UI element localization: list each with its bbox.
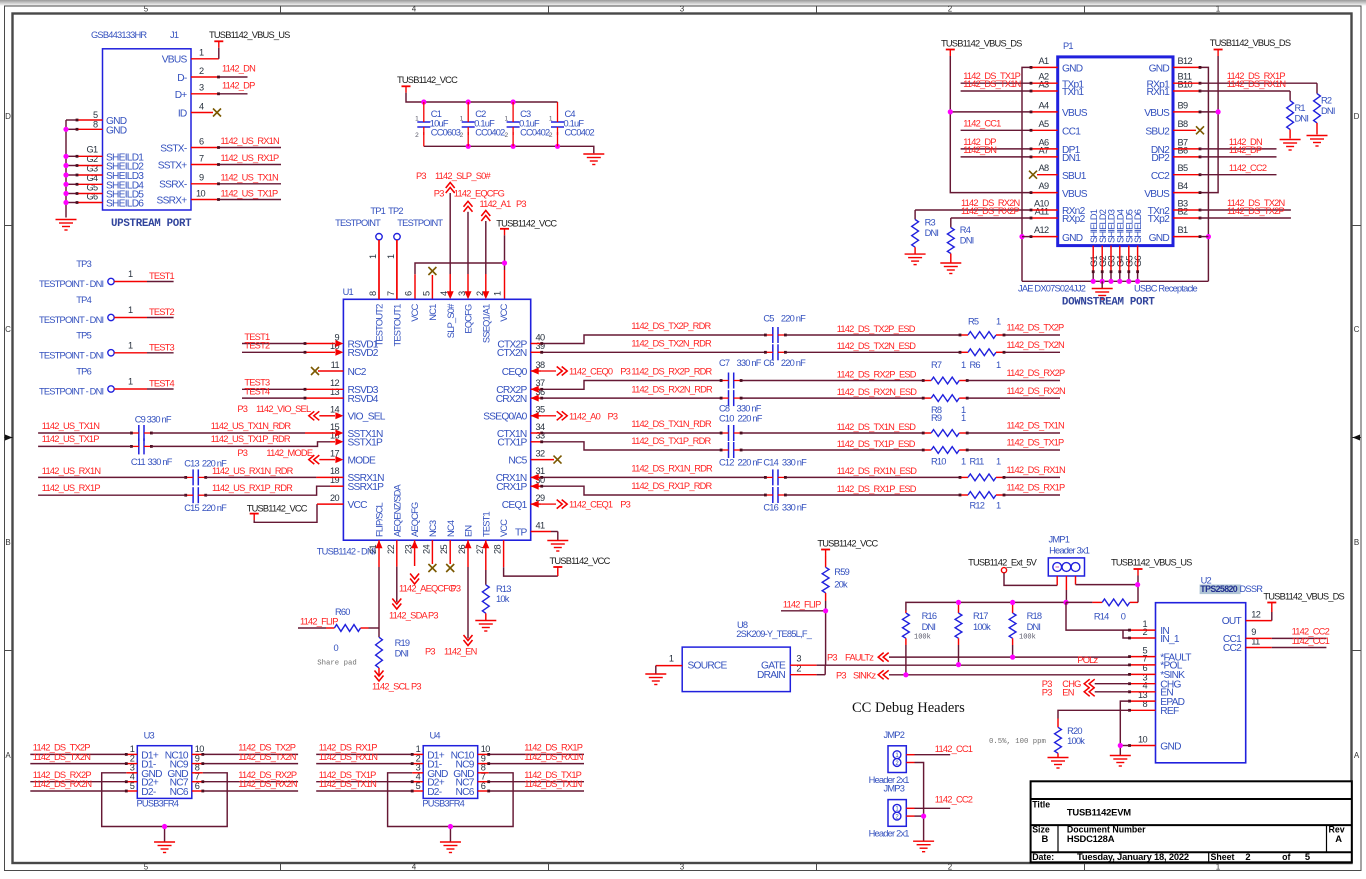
resistor R9 xyxy=(922,413,969,436)
svg-text:G2: G2 xyxy=(86,154,98,164)
power TUSB1142_VBUS_US at U2 xyxy=(1111,558,1192,603)
wire 1142_DN xyxy=(191,64,255,79)
wire 1142_US_RX1N row xyxy=(38,466,343,478)
svg-text:1142_DS_TX1P: 1142_DS_TX1P xyxy=(1007,438,1064,448)
svg-text:CC Debug Headers: CC Debug Headers xyxy=(852,700,965,716)
svg-text:USBC Receptacle: USBC Receptacle xyxy=(1134,283,1198,293)
svg-text:Date:: Date: xyxy=(1032,852,1054,862)
svg-text:JMP2: JMP2 xyxy=(884,730,905,740)
svg-text:B2: B2 xyxy=(1178,207,1189,217)
junction B1 GND xyxy=(1206,234,1211,239)
junction VBUS right xyxy=(1216,109,1221,114)
resistor R5 xyxy=(959,317,1006,339)
svg-text:1142_US_TX1P_RDR: 1142_US_TX1P_RDR xyxy=(211,434,291,444)
svg-text:1142_DN: 1142_DN xyxy=(963,145,996,155)
P1 B8 SBU2 no-connect xyxy=(1173,126,1204,134)
svg-text:1: 1 xyxy=(199,48,204,58)
svg-text:DNI: DNI xyxy=(395,649,409,659)
svg-text:32: 32 xyxy=(536,448,546,458)
svg-text:1: 1 xyxy=(961,413,966,423)
svg-text:TUSB1142_VBUS_DS: TUSB1142_VBUS_DS xyxy=(1210,38,1291,48)
svg-text:1142_DS_RX1P_ESD: 1142_DS_RX1P_ESD xyxy=(837,484,917,494)
wire 1142_DS_RX2P to A11 xyxy=(951,206,1058,219)
J1 pin numbers xyxy=(86,48,205,202)
svg-text:24: 24 xyxy=(421,545,431,555)
wire 1142_DP to A6 xyxy=(961,137,1058,150)
wire U4 ground loop xyxy=(388,773,513,842)
svg-text:OUT: OUT xyxy=(1222,616,1242,627)
power TUSB1142_VCC at U1 pin1 xyxy=(496,218,557,263)
P1 shield pin numbers xyxy=(1089,255,1143,267)
svg-text:TXn1: TXn1 xyxy=(1062,87,1084,98)
svg-text:C5: C5 xyxy=(763,314,774,324)
svg-text:B9: B9 xyxy=(1178,100,1189,110)
svg-text:5: 5 xyxy=(1305,851,1310,862)
U1 bottom pin numbers xyxy=(368,545,503,555)
svg-text:TEST1: TEST1 xyxy=(149,271,175,281)
wire U1 pin28 VCC xyxy=(504,540,558,576)
svg-text:1142_CEQ1: 1142_CEQ1 xyxy=(569,500,613,510)
svg-text:GND: GND xyxy=(1062,64,1083,75)
svg-text:41: 41 xyxy=(536,520,546,530)
testpoint TP6 xyxy=(39,367,147,397)
capacitor C3 xyxy=(504,102,550,146)
svg-text:1142_FLIP: 1142_FLIP xyxy=(783,599,821,609)
P1 right pin names xyxy=(1144,64,1170,244)
svg-text:2: 2 xyxy=(948,5,953,14)
svg-text:G1: G1 xyxy=(86,145,98,155)
svg-text:PUSB3FR4: PUSB3FR4 xyxy=(422,799,464,809)
svg-text:1142_DS_TX2P: 1142_DS_TX2P xyxy=(1227,206,1284,216)
svg-text:TESTPOINT - DNI: TESTPOINT - DNI xyxy=(39,387,103,397)
junction R18 bus top xyxy=(1010,600,1015,605)
wire U2 EPAD to GND xyxy=(1120,701,1129,755)
ground at R2 xyxy=(1307,136,1328,147)
svg-text:P3: P3 xyxy=(827,653,837,663)
resistor R11 xyxy=(959,457,1006,481)
U3 pin numbers xyxy=(130,744,205,791)
svg-text:DN1: DN1 xyxy=(1062,153,1081,164)
resistor R20 xyxy=(1055,719,1086,758)
svg-text:TUSB1142 - DNI: TUSB1142 - DNI xyxy=(317,547,375,557)
svg-text:1142_DS_RX1N: 1142_DS_RX1N xyxy=(1007,465,1066,475)
U2 right pin names xyxy=(1222,616,1242,654)
ground at R20 xyxy=(1048,758,1069,769)
U1 pin24 NC3 no-connect xyxy=(428,540,436,572)
wire 1142_DS_RX1P from B11 xyxy=(1173,71,1317,84)
svg-text:39: 39 xyxy=(536,341,546,351)
svg-text:1142_DS_RX1N: 1142_DS_RX1N xyxy=(1227,79,1286,89)
wire P1 B9 VBUS stub xyxy=(1173,111,1201,114)
svg-text:330 nF: 330 nF xyxy=(148,457,173,467)
wire 1142_DS_TX2N from B3 xyxy=(1173,198,1291,211)
P1 left pin names xyxy=(1062,64,1088,244)
svg-text:C4: C4 xyxy=(565,109,576,119)
svg-text:19: 19 xyxy=(330,475,340,485)
svg-text:1142_CC2: 1142_CC2 xyxy=(935,795,973,805)
svg-text:220 nF: 220 nF xyxy=(738,414,763,424)
svg-text:1142_DS_RX2P: 1142_DS_RX2P xyxy=(1007,368,1066,378)
svg-text:Title: Title xyxy=(1032,799,1050,809)
wire 1142_US_RX1N xyxy=(191,136,281,149)
wire 1142_DS_RX1P_RDR row xyxy=(531,481,1065,495)
svg-text:1142_DS_RX2P_RDR: 1142_DS_RX2P_RDR xyxy=(631,367,712,377)
resistor R14 xyxy=(1066,599,1138,622)
wire 1142_US_TX1P xyxy=(191,188,281,201)
svg-text:1142_DS_TX2P: 1142_DS_TX2P xyxy=(1007,323,1064,333)
capacitor C4 xyxy=(549,102,595,146)
wire TEST1 to U1 pin9 xyxy=(242,332,343,347)
U4 pin names xyxy=(427,750,475,798)
svg-text:TP3: TP3 xyxy=(76,259,91,269)
resistor R4 xyxy=(947,218,973,263)
svg-text:SHEILD6: SHEILD6 xyxy=(106,199,144,210)
wire 1142_DS_RX1N from U4 pin 9 xyxy=(478,752,584,765)
svg-text:1142_CEQ0: 1142_CEQ0 xyxy=(569,367,613,377)
capacitor C13 xyxy=(184,458,227,485)
svg-text:4: 4 xyxy=(412,5,417,14)
svg-text:5: 5 xyxy=(144,5,149,14)
svg-text:P3: P3 xyxy=(451,584,461,594)
svg-text:B: B xyxy=(1042,833,1049,844)
capacitor C12 xyxy=(719,442,763,468)
svg-text:GND: GND xyxy=(1160,741,1181,752)
ic U8 2SK209 body xyxy=(682,620,813,692)
capacitor C7 xyxy=(719,358,762,389)
wire 1142_DS_RX2N_RDR row xyxy=(531,384,1065,401)
svg-text:SSTX+: SSTX+ xyxy=(158,160,188,171)
ic U2 TPS25820 body xyxy=(1156,575,1264,762)
wire JMP2 pin2 down xyxy=(906,763,923,817)
svg-text:1142_DS_RX1N_RDR: 1142_DS_RX1N_RDR xyxy=(631,464,713,474)
U2 left pin names xyxy=(1160,626,1191,752)
capacitor C16 xyxy=(763,487,807,512)
svg-text:TUSB1142EVM: TUSB1142EVM xyxy=(1067,807,1131,818)
offpage connector CHG xyxy=(1042,679,1130,689)
wire TEST1 at TP3 xyxy=(147,271,175,282)
svg-text:1142_US_RX1N: 1142_US_RX1N xyxy=(221,136,280,146)
wire U2 REF to R20 xyxy=(1058,710,1130,718)
ground at JMP3 xyxy=(913,841,934,852)
svg-text:B1: B1 xyxy=(1178,225,1189,235)
wire 1142_DS_RX2N from U3 pin 6 xyxy=(192,779,298,792)
svg-text:SSRX1P: SSRX1P xyxy=(348,482,385,493)
svg-text:NC1: NC1 xyxy=(428,304,438,321)
svg-text:1: 1 xyxy=(128,377,133,387)
svg-text:Tuesday, January 18, 2022: Tuesday, January 18, 2022 xyxy=(1077,851,1189,862)
svg-text:NC6: NC6 xyxy=(170,787,189,798)
wire JMP1 pin3 to VBUS_US xyxy=(1076,576,1138,585)
svg-text:8: 8 xyxy=(368,291,378,296)
capacitor C6 xyxy=(763,344,806,368)
wire 1142_US_RX1P row xyxy=(38,483,343,495)
svg-text:VIO_SEL: VIO_SEL xyxy=(348,412,386,423)
U1 pin5 NC1 no-connect xyxy=(428,267,436,299)
capacitor C10 xyxy=(719,414,763,441)
testpoint TP3 xyxy=(39,259,147,289)
svg-text:2: 2 xyxy=(1245,851,1250,862)
wire U1 pin23 AEQCFG xyxy=(411,540,418,566)
power TUSB1142_VCC at R59 xyxy=(817,539,878,556)
svg-text:CC1: CC1 xyxy=(1062,127,1081,138)
wire 1142_CC2 at JMP3 xyxy=(906,795,972,809)
power TUSB1142_VBUS_DS at U2 xyxy=(1263,592,1344,609)
svg-text:B10: B10 xyxy=(1178,80,1193,90)
svg-text:NC5: NC5 xyxy=(508,455,527,466)
svg-text:C6: C6 xyxy=(763,358,774,368)
svg-text:1: 1 xyxy=(1216,5,1221,14)
svg-text:1: 1 xyxy=(1216,863,1221,872)
svg-text:1: 1 xyxy=(961,360,966,370)
svg-text:A: A xyxy=(1335,833,1342,844)
svg-text:SHIELD6: SHIELD6 xyxy=(1133,209,1143,243)
svg-text:B4: B4 xyxy=(1178,181,1189,191)
wire P1 shield pins to ground bus xyxy=(1022,246,1208,282)
svg-text:A: A xyxy=(5,751,11,760)
svg-text:1142_DS_TX1N_ESD: 1142_DS_TX1N_ESD xyxy=(837,422,917,432)
wire capacitor bank bottom bus xyxy=(424,146,594,153)
svg-text:0: 0 xyxy=(1121,612,1126,622)
svg-text:TUSB1142_Ext_5V: TUSB1142_Ext_5V xyxy=(968,558,1038,568)
svg-text:1: 1 xyxy=(669,654,674,664)
svg-text:DNI: DNI xyxy=(960,236,974,246)
wire 1142_DS_RX1P from U4 pin 10 xyxy=(478,743,584,756)
svg-text:P3: P3 xyxy=(237,448,247,458)
svg-text:D-: D- xyxy=(177,73,187,84)
svg-text:C16: C16 xyxy=(763,502,778,512)
wire TEST3 to U1 pin12 xyxy=(242,378,343,391)
junction U2 GND xyxy=(1118,743,1123,748)
svg-text:1142_DS_RX1N: 1142_DS_RX1N xyxy=(524,752,583,762)
svg-text:D: D xyxy=(5,112,11,121)
svg-text:1142_DP: 1142_DP xyxy=(1229,145,1262,155)
U1 left pin numbers xyxy=(330,332,340,503)
svg-text:SSRX-: SSRX- xyxy=(159,180,187,191)
svg-text:Sheet: Sheet xyxy=(1211,852,1235,862)
svg-text:1142_DS_TX1N: 1142_DS_TX1N xyxy=(319,779,376,789)
U4 pin numbers xyxy=(416,744,491,791)
svg-text:NC4: NC4 xyxy=(446,520,456,537)
svg-text:GND: GND xyxy=(106,125,127,136)
resistor R18 xyxy=(1009,602,1042,657)
svg-text:1: 1 xyxy=(415,116,419,123)
svg-text:0: 0 xyxy=(334,643,339,653)
wire TEST2 to U1 pin10 xyxy=(242,341,343,356)
resistor R19 xyxy=(376,637,410,675)
svg-text:TP1: TP1 xyxy=(370,206,385,216)
wire U2 OUT to VBUS_DS xyxy=(1246,609,1272,621)
offpage connector 1142_EQCFG xyxy=(434,188,505,299)
svg-text:DNI: DNI xyxy=(1027,622,1041,632)
svg-text:220 nF: 220 nF xyxy=(202,503,227,513)
connector J1 GSB443133HR body xyxy=(91,30,191,210)
svg-text:TP4: TP4 xyxy=(76,295,91,305)
svg-text:P3: P3 xyxy=(1042,687,1052,697)
svg-text:R59: R59 xyxy=(834,567,849,577)
wire 1142_DS_TX2N_RDR row xyxy=(531,339,1064,354)
wire 1142_DS_TX1N to U4 pin 5 xyxy=(316,779,423,792)
svg-text:1142_DS_TX1N: 1142_DS_TX1N xyxy=(524,779,581,789)
svg-text:1142_DS_TX2N: 1142_DS_TX2N xyxy=(238,752,295,762)
svg-text:SBU1: SBU1 xyxy=(1062,171,1087,182)
offpage connector EN at U2 xyxy=(1042,687,1130,697)
wire SINKz row xyxy=(889,674,1130,676)
power TUSB1142_Ext_5V xyxy=(968,558,1050,586)
svg-text:1142_A1: 1142_A1 xyxy=(480,199,512,209)
svg-text:TP5: TP5 xyxy=(76,330,91,340)
svg-text:TUSB1142_VCC: TUSB1142_VCC xyxy=(247,504,308,514)
svg-text:1142_DS_TX2P_ESD: 1142_DS_TX2P_ESD xyxy=(837,324,916,334)
label USBC Receptacle xyxy=(1134,283,1198,293)
svg-text:P3: P3 xyxy=(237,404,247,414)
svg-text:TEST2: TEST2 xyxy=(244,341,270,351)
wire 1142_DS_TX2P from U3 pin 10 xyxy=(192,743,298,756)
svg-text:1142_CC1: 1142_CC1 xyxy=(935,744,973,754)
svg-text:VBUS: VBUS xyxy=(1062,108,1088,119)
svg-text:1142_DS_TX2N_ESD: 1142_DS_TX2N_ESD xyxy=(837,341,917,351)
svg-text:4: 4 xyxy=(412,863,417,872)
svg-text:JAE DX07S024JJ2: JAE DX07S024JJ2 xyxy=(1018,283,1086,293)
power TUSB1142_VBUS_US at J1 xyxy=(209,30,290,48)
svg-text:330 nF: 330 nF xyxy=(782,458,807,468)
wire TEST4 at TP6 xyxy=(147,379,175,390)
wire 1142_DS_TX2N to U3 pin 2 xyxy=(30,752,137,765)
wire 1142_DN from B7 xyxy=(1173,137,1277,150)
svg-text:VBUS: VBUS xyxy=(1062,189,1088,200)
svg-text:SSEQ0/A0: SSEQ0/A0 xyxy=(483,412,527,423)
resistor R6 xyxy=(959,349,1006,370)
svg-text:P3: P3 xyxy=(608,411,618,421)
ground at U2 xyxy=(1110,756,1131,767)
svg-text:1142_DS_RX2N: 1142_DS_RX2N xyxy=(1007,386,1066,396)
svg-text:28: 28 xyxy=(493,545,503,555)
svg-text:P3: P3 xyxy=(425,647,435,657)
capacitor C8 xyxy=(719,390,762,413)
label tolerance xyxy=(989,738,1046,746)
svg-text:C12: C12 xyxy=(719,458,734,468)
svg-text:R12: R12 xyxy=(970,501,985,511)
capacitor C11 xyxy=(130,438,173,467)
svg-text:C10: C10 xyxy=(719,414,734,424)
svg-text:RXn1: RXn1 xyxy=(1147,87,1171,98)
resistor R12 xyxy=(959,492,1006,511)
wire 1142_CC2 from B5 xyxy=(1173,163,1277,176)
wire JMP3 pin2 to ground xyxy=(906,816,923,841)
wire 1142_CC1 at JMP2 xyxy=(906,744,972,755)
svg-text:7: 7 xyxy=(199,154,204,164)
svg-text:5: 5 xyxy=(421,291,431,296)
svg-text:U3: U3 xyxy=(144,731,155,741)
svg-text:VBUS: VBUS xyxy=(1144,108,1170,119)
P1 left pin numbers xyxy=(1034,56,1049,235)
svg-text:1142_EN: 1142_EN xyxy=(444,647,477,657)
svg-text:U4: U4 xyxy=(430,731,441,741)
svg-text:RSVD4: RSVD4 xyxy=(348,394,379,405)
svg-text:1: 1 xyxy=(996,360,1001,370)
ground at J1 xyxy=(56,220,77,231)
svg-text:1142_US_TX1P: 1142_US_TX1P xyxy=(42,434,99,444)
svg-text:25: 25 xyxy=(439,545,449,555)
connector P1 body xyxy=(1058,41,1173,246)
svg-text:P3: P3 xyxy=(620,500,630,510)
wire P1 B4 VBUS stub xyxy=(1173,191,1201,194)
svg-text:SSRX+: SSRX+ xyxy=(157,195,188,206)
wire 1142_DP xyxy=(191,81,255,96)
wire 1142_DS_RX2P from U3 pin 7 xyxy=(192,770,298,783)
wire P1 B1 GND stub xyxy=(1173,235,1208,238)
svg-text:1142_DS_RX1P: 1142_DS_RX1P xyxy=(1007,483,1066,493)
svg-text:C11: C11 xyxy=(131,457,146,467)
svg-text:R3: R3 xyxy=(925,218,936,228)
svg-text:13: 13 xyxy=(330,387,340,397)
ic U1 TUSB1142 body xyxy=(317,287,531,557)
offpage connector 1142_VIO_SEL xyxy=(237,404,343,420)
svg-text:1142_US_RX1P: 1142_US_RX1P xyxy=(42,483,101,493)
svg-text:VCC: VCC xyxy=(499,519,509,537)
U2 left pin stubs xyxy=(1128,629,1155,747)
offpage connector 1142_MODE xyxy=(237,448,343,464)
svg-text:1: 1 xyxy=(996,501,1001,511)
svg-text:CEQ1: CEQ1 xyxy=(502,500,528,511)
svg-text:1142_DS_RX1P_RDR: 1142_DS_RX1P_RDR xyxy=(631,481,712,491)
junction VBUS left xyxy=(948,109,953,114)
svg-text:NC6: NC6 xyxy=(456,787,475,798)
svg-text:R9: R9 xyxy=(931,413,942,423)
svg-text:1142_US_TX1N: 1142_US_TX1N xyxy=(42,421,99,431)
U2 left pin numbers xyxy=(1138,619,1148,744)
ic U3 PUSB3FR4 body xyxy=(137,731,192,809)
testpoint TP2 xyxy=(386,206,443,299)
svg-text:P3: P3 xyxy=(434,188,444,198)
svg-text:REF: REF xyxy=(1160,706,1179,717)
svg-text:C13: C13 xyxy=(184,458,199,468)
svg-text:1: 1 xyxy=(128,340,133,350)
svg-text:1142_US_RX1P_RDR: 1142_US_RX1P_RDR xyxy=(212,483,293,493)
svg-text:3: 3 xyxy=(796,654,801,664)
wire 1142_US_TX1N row xyxy=(38,421,343,437)
svg-text:UPSTREAM PORT: UPSTREAM PORT xyxy=(111,218,192,230)
svg-text:1142_VIO_SEL: 1142_VIO_SEL xyxy=(256,404,311,414)
J1 ID pin no-connect xyxy=(191,109,221,117)
resistor R1 xyxy=(1287,91,1309,139)
wire TEST3 at TP5 xyxy=(147,342,175,353)
svg-text:CC0402: CC0402 xyxy=(520,128,550,138)
svg-text:TUSB1142_VBUS_US: TUSB1142_VBUS_US xyxy=(209,30,290,40)
title block text xyxy=(1032,799,1345,862)
svg-text:D2-: D2- xyxy=(141,787,156,798)
wire 1142_DS_TX1N_RDR row xyxy=(531,419,1064,434)
svg-text:A8: A8 xyxy=(1038,163,1049,173)
U1 right pin numbers xyxy=(536,332,546,530)
ground at capacitor bank xyxy=(583,154,604,165)
svg-text:JMP3: JMP3 xyxy=(884,784,905,794)
wire 1142_DS_RX1N from B10 xyxy=(1173,79,1290,92)
wire POLz row xyxy=(825,655,1129,665)
power TUSB1142_VBUS_DS left of P1 xyxy=(941,39,1031,193)
svg-text:2: 2 xyxy=(1142,627,1147,637)
svg-text:10: 10 xyxy=(1138,734,1148,744)
wire U8 source to ground xyxy=(656,666,682,674)
svg-text:100k: 100k xyxy=(914,634,931,642)
svg-text:B5: B5 xyxy=(1178,163,1189,173)
wire 1142_US_TX1P row xyxy=(38,434,343,446)
svg-text:1142_DS_RX2P_ESD: 1142_DS_RX2P_ESD xyxy=(837,369,917,379)
svg-text:1142_A0: 1142_A0 xyxy=(569,411,601,421)
svg-text:P3: P3 xyxy=(416,171,426,181)
svg-text:TEST1: TEST1 xyxy=(481,511,491,537)
ground at R3 xyxy=(905,254,926,265)
svg-text:GND: GND xyxy=(1149,64,1170,75)
